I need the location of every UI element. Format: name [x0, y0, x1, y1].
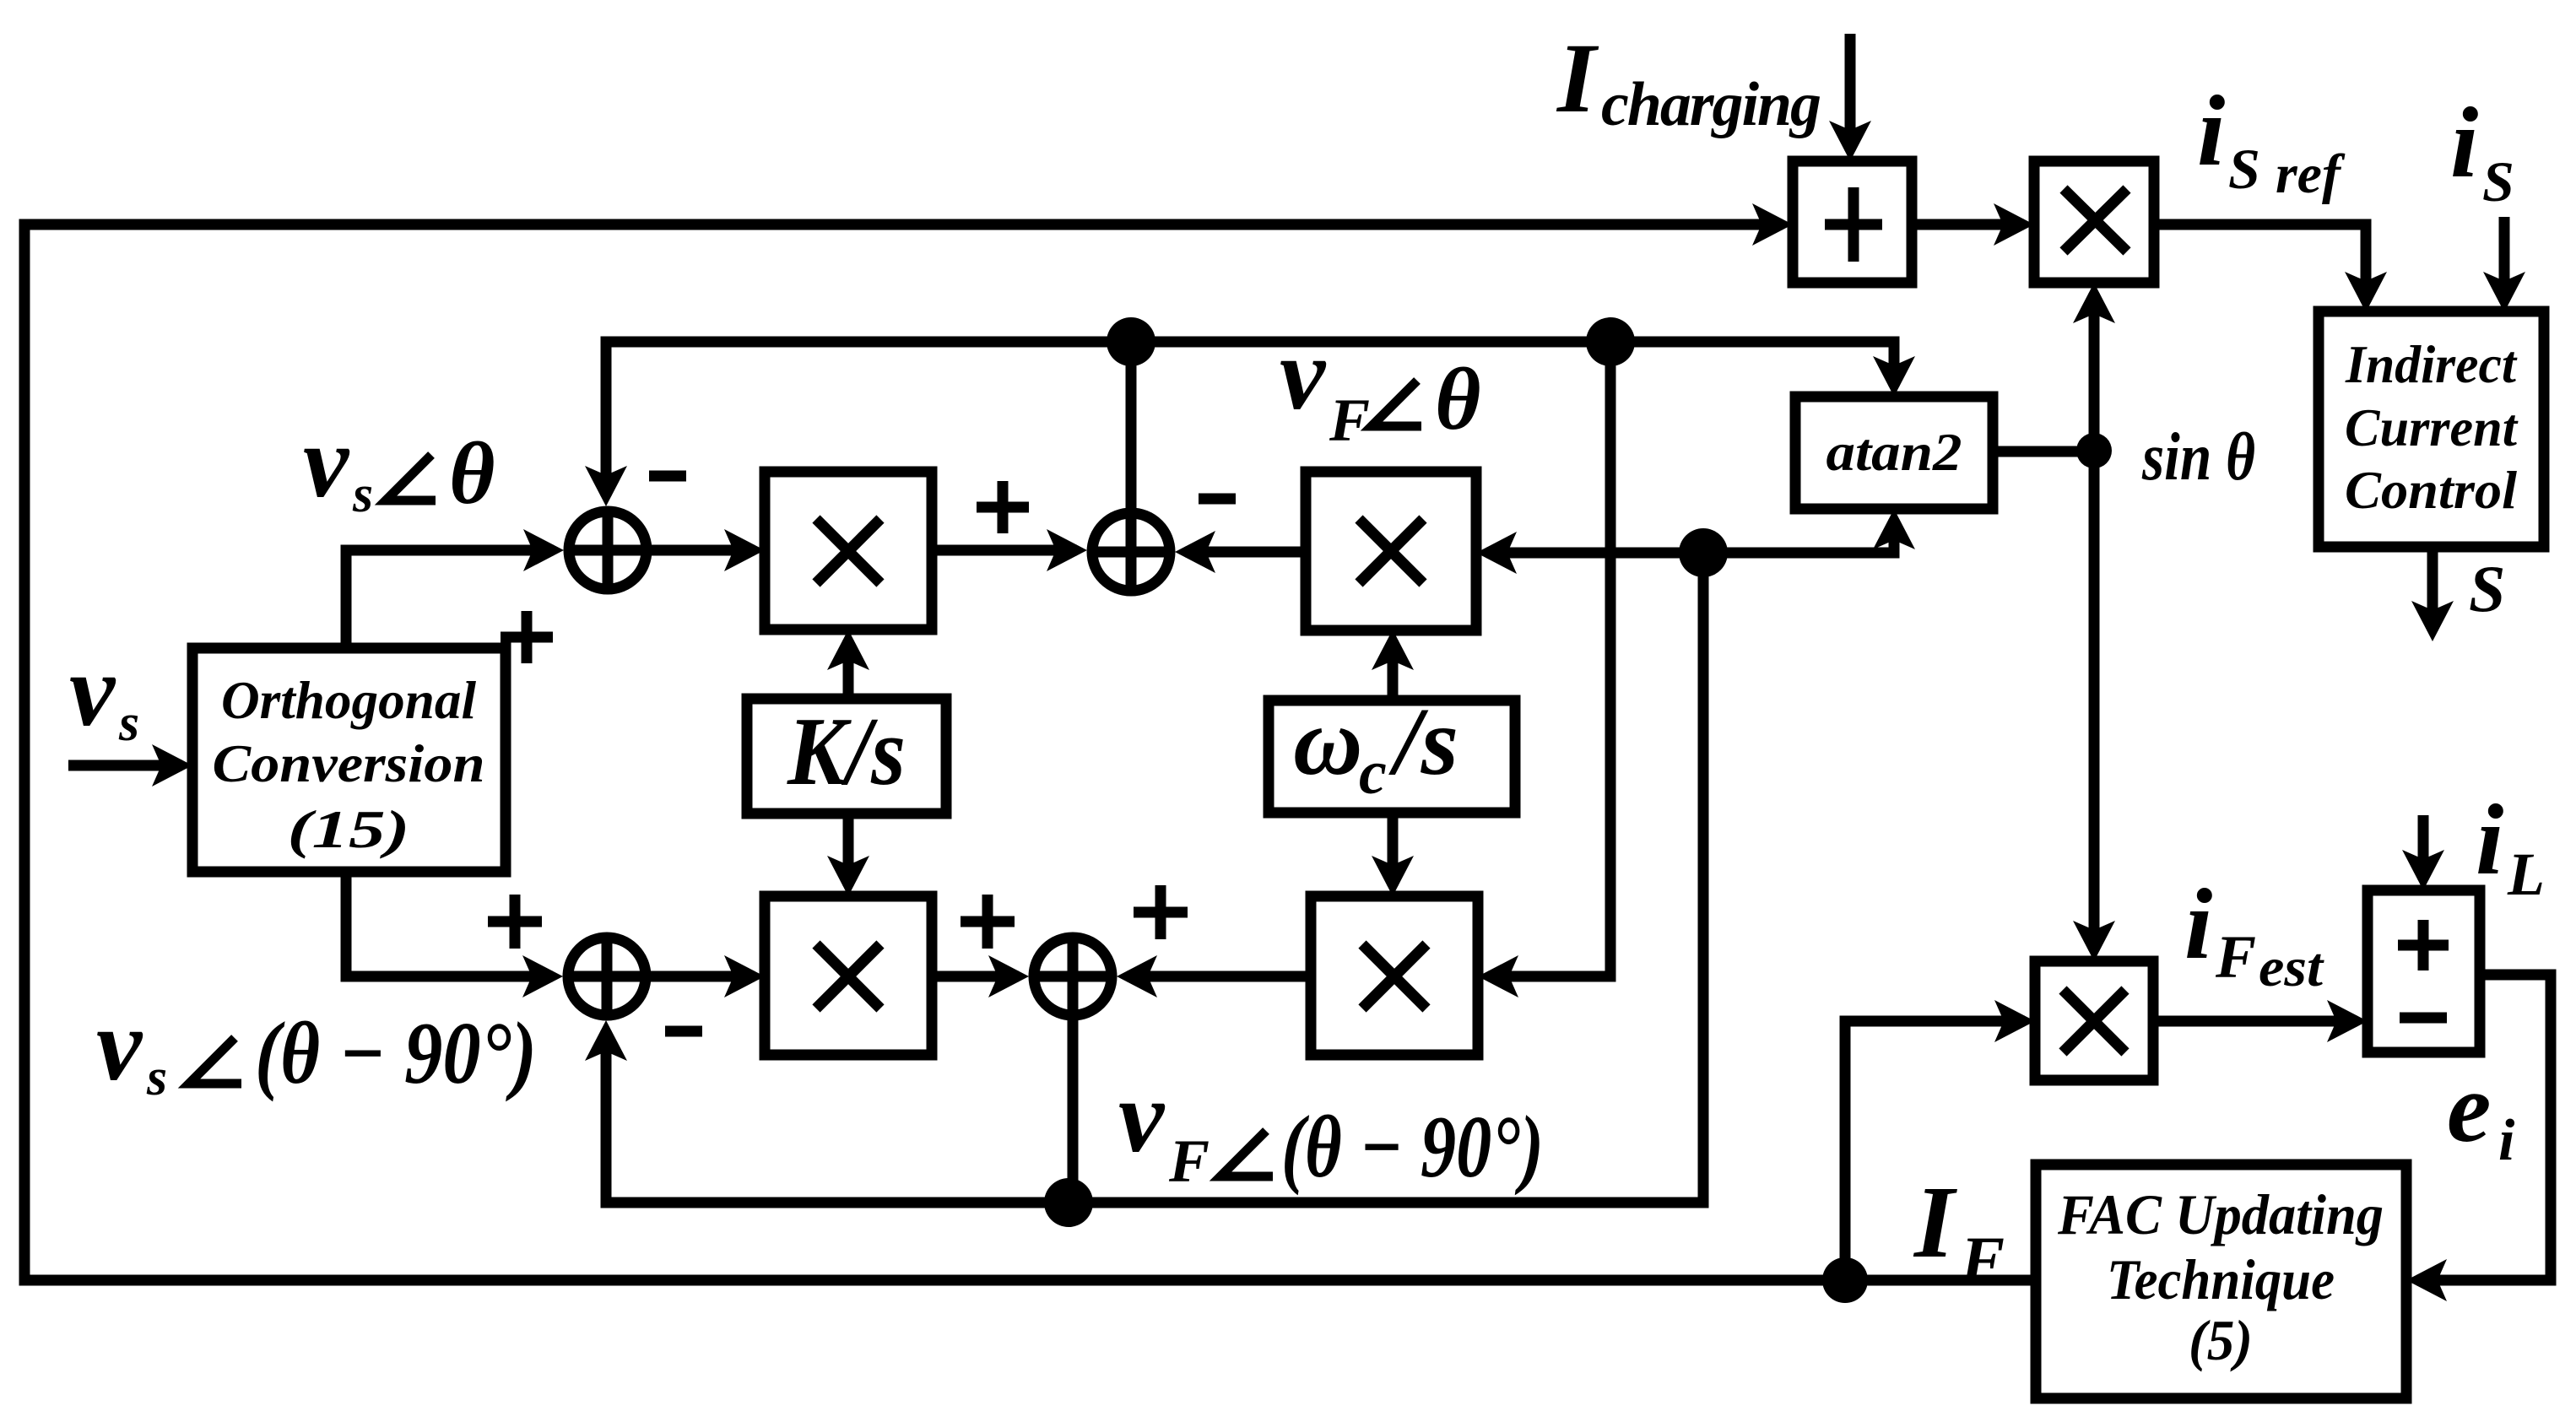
- svg-text:i: i: [2184, 868, 2212, 980]
- node junction at third row: [1679, 528, 1728, 577]
- svg-text:θ: θ: [449, 424, 495, 522]
- node sin theta junction: [2076, 433, 2112, 468]
- sign plus at summing 2 left input: [977, 481, 1029, 533]
- svg-text:(15): (15): [288, 799, 410, 859]
- svg-text:c: c: [1359, 738, 1387, 808]
- sign plus at summing 4 left input: [961, 895, 1015, 949]
- svg-text:s: s: [118, 695, 139, 752]
- wire multiplier 2 output to summing 2: [1185, 547, 1306, 558]
- wire K/s output up into multiplier 1: [843, 640, 854, 699]
- svg-text:S: S: [2469, 552, 2505, 625]
- summing circle 3: [568, 938, 646, 1015]
- svg-text:s: s: [146, 1049, 167, 1106]
- svg-text:est: est: [2259, 937, 2324, 998]
- wire i_S arrow into Indirect Current Control: [2499, 217, 2510, 302]
- svg-text:i: i: [2498, 1108, 2515, 1173]
- wire Orthogonal Conversion top output to summing 1: [346, 550, 554, 648]
- svg-text:F: F: [2215, 923, 2256, 991]
- wire multiplier 5 to +- summing box: [2153, 1016, 2357, 1027]
- wire omega_c/s output up into multiplier 2: [1388, 640, 1399, 700]
- svg-text:sin θ: sin θ: [2141, 420, 2255, 495]
- svg-text:atan2: atan2: [1826, 422, 1962, 482]
- wire multiplier 1 to summing 2: [932, 545, 1077, 556]
- sign minus at summing 1 top: [649, 471, 686, 482]
- svg-text:v: v: [69, 634, 116, 748]
- wire vF theta line left segment into summing 1 top: [606, 342, 1131, 496]
- svg-text:v: v: [1280, 317, 1327, 431]
- svg-text:S: S: [2228, 137, 2260, 201]
- wire lower feedback from junction down, along bottom, up into summing 3: [606, 553, 1703, 1203]
- wire S output arrow: [2427, 547, 2438, 631]
- sign plus at summing 4 right input: [1134, 885, 1188, 939]
- svg-text:e: e: [2447, 1052, 2491, 1163]
- wire iS ref to Indirect Current Control: [2154, 224, 2366, 302]
- wire third row line to atan2 bottom input: [1703, 519, 1894, 553]
- wire v_s input arrow: [68, 760, 182, 771]
- svg-text:F: F: [1960, 1223, 2005, 1296]
- svg-text:Current: Current: [2345, 398, 2519, 457]
- wire summing 1 to multiplier 1: [647, 545, 755, 556]
- svg-text:θ: θ: [1435, 349, 1481, 448]
- svg-text:v: v: [1118, 1060, 1166, 1174]
- multiplier box 3: [765, 896, 932, 1055]
- wire atan2 output: [1993, 446, 2094, 457]
- wire K/s output down into multiplier 3: [843, 814, 854, 886]
- wire summing 2 output up: [1126, 342, 1137, 508]
- sign plus at summing 3 input: [488, 895, 542, 949]
- wire sin theta up into multiplier: [2089, 293, 2100, 451]
- svg-text:FAC Updating: FAC Updating: [2057, 1182, 2384, 1246]
- svg-text:Control: Control: [2345, 461, 2517, 520]
- block Orthogonal Conversion (15): [192, 648, 506, 872]
- svg-text:(θ − 90°): (θ − 90°): [1281, 1097, 1544, 1196]
- svg-text:v: v: [303, 405, 350, 519]
- block FAC Updating Technique (5): [2036, 1165, 2406, 1398]
- summing box + (top): [1793, 161, 1912, 283]
- multiplier box (iS ref): [2034, 161, 2154, 283]
- svg-text:ref: ref: [2276, 143, 2346, 205]
- svg-text:I: I: [1913, 1165, 1957, 1279]
- multiplier box 1: [765, 472, 932, 630]
- svg-text:charging: charging: [1601, 70, 1821, 139]
- sign minus at summing 2 right input: [1199, 494, 1236, 505]
- summing circle 4: [1034, 938, 1112, 1015]
- summing box plus minus: [2368, 890, 2480, 1052]
- svg-text:Technique: Technique: [2107, 1247, 2335, 1311]
- svg-text:i: i: [2476, 783, 2503, 895]
- wire vF theta drop to multiplier 4 right input: [1488, 342, 1610, 976]
- svg-text:I: I: [1556, 23, 1599, 133]
- svg-text:L: L: [2507, 841, 2545, 908]
- node junction on IF line: [1822, 1257, 1868, 1303]
- node junction on vF theta line above summing 2: [1107, 317, 1155, 366]
- svg-text:v: v: [96, 988, 143, 1102]
- block K/s: [747, 699, 946, 814]
- wire + box to multiplier: [1912, 219, 2024, 230]
- svg-text:i: i: [2197, 74, 2225, 187]
- svg-text:(5): (5): [2189, 1308, 2253, 1372]
- wire i_L arrow into +- summing box: [2418, 815, 2429, 880]
- node junction on vF theta line at x 1908: [1586, 317, 1635, 366]
- svg-text:F: F: [1168, 1127, 1210, 1195]
- svg-text:S: S: [2482, 149, 2514, 214]
- summing circle 2: [1092, 513, 1170, 591]
- wire third row line from junction into multiplier 2 right input: [1486, 548, 1703, 559]
- wire summing 3 to multiplier 3: [646, 971, 755, 982]
- wire vF theta line right segment into atan2 top: [1131, 342, 1894, 387]
- multiplier box 5: [2035, 961, 2153, 1080]
- svg-text:Conversion: Conversion: [213, 733, 485, 793]
- svg-text:F: F: [1329, 387, 1370, 454]
- svg-text:ω: ω: [1293, 688, 1362, 795]
- block omega_c/s: [1269, 700, 1515, 813]
- svg-text:(θ − 90°): (θ − 90°): [255, 1003, 537, 1102]
- block Indirect Current Control: [2319, 311, 2544, 547]
- wire omega_c/s output down into multiplier 4: [1388, 813, 1399, 886]
- svg-text:K/s: K/s: [787, 698, 906, 805]
- sign minus at summing 3 bottom: [665, 1026, 702, 1037]
- svg-text:Orthogonal: Orthogonal: [221, 670, 476, 730]
- multiplier box 2: [1306, 472, 1476, 630]
- svg-text:s: s: [352, 466, 373, 523]
- wire main feedback loop: IF line along bottom, left border, top line into + box: [24, 224, 2036, 1280]
- block atan2: [1795, 397, 1993, 509]
- wire summing 4 output down to lower feedback line: [1068, 1015, 1079, 1203]
- wire multiplier 3 to summing 4: [932, 971, 1019, 982]
- svg-text:/s: /s: [1388, 688, 1458, 795]
- svg-text:Indirect: Indirect: [2345, 335, 2518, 394]
- sign plus at summing 1 input: [501, 611, 553, 663]
- wire I_charging input arrow into + box: [1845, 34, 1856, 151]
- wire IF branch up into multiplier 5: [1845, 1021, 2025, 1280]
- wire Orthogonal Conversion bottom output to summing 3: [346, 872, 553, 976]
- wire sin theta down into bottom multiplier: [2089, 451, 2100, 951]
- summing circle 1: [569, 511, 647, 589]
- svg-text:i: i: [2450, 86, 2478, 198]
- wire error output to FAC block: [2416, 975, 2551, 1280]
- multiplier box 4: [1311, 896, 1478, 1055]
- wire multiplier 4 output to summing 4: [1127, 971, 1311, 982]
- node junction on lower feedback line: [1044, 1178, 1093, 1227]
